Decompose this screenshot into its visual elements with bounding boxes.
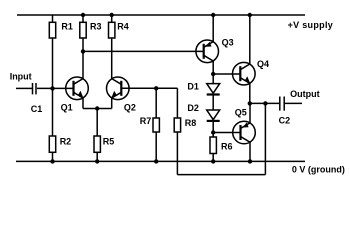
svg-text:R1: R1	[61, 22, 73, 32]
svg-text:R7: R7	[140, 116, 152, 126]
svg-text:Q5: Q5	[235, 107, 247, 117]
svg-text:Q1: Q1	[61, 102, 73, 112]
svg-text:C1: C1	[31, 104, 43, 114]
svg-text:C2: C2	[279, 116, 291, 126]
svg-text:Q2: Q2	[124, 102, 136, 112]
svg-text:R4: R4	[117, 22, 129, 32]
svg-text:R5: R5	[103, 137, 115, 147]
svg-text:Q3: Q3	[222, 37, 234, 47]
svg-text:Input: Input	[10, 72, 32, 82]
svg-text:D1: D1	[187, 82, 199, 92]
svg-text:0 V (ground): 0 V (ground)	[292, 165, 345, 175]
svg-text:R6: R6	[221, 141, 233, 151]
svg-text:R2: R2	[60, 137, 72, 147]
svg-text:R3: R3	[90, 22, 102, 32]
svg-text:D2: D2	[187, 103, 199, 113]
svg-text:+V supply: +V supply	[288, 20, 333, 30]
svg-text:Q4: Q4	[257, 59, 269, 69]
svg-text:R8: R8	[185, 118, 197, 128]
svg-text:Output: Output	[290, 89, 320, 99]
